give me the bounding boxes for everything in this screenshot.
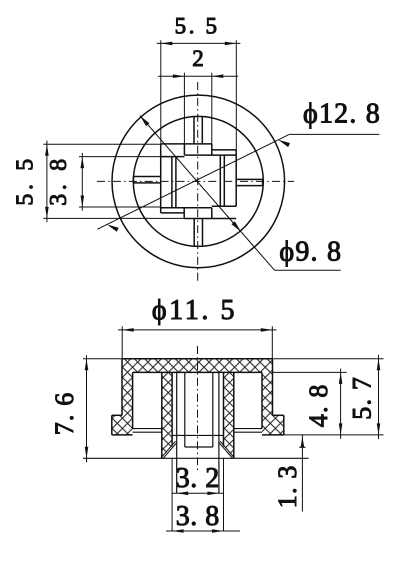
svg-text:5. 5: 5. 5 [175,14,220,39]
svg-text:3. 8: 3. 8 [176,501,220,532]
svg-text:ϕ9. 8: ϕ9. 8 [279,236,342,267]
svg-text:7. 6: 7. 6 [50,391,79,435]
svg-text:5. 7: 5. 7 [347,376,376,420]
svg-text:2: 2 [192,46,205,71]
svg-text:1. 3: 1. 3 [273,464,302,508]
svg-text:5. 5: 5. 5 [13,155,39,205]
svg-text:4. 8: 4. 8 [304,383,333,427]
svg-text:ϕ11. 5: ϕ11. 5 [152,295,237,326]
svg-text:3. 8: 3. 8 [46,155,72,205]
svg-text:3. 2: 3. 2 [176,463,220,494]
svg-text:ϕ12. 8: ϕ12. 8 [303,99,381,130]
